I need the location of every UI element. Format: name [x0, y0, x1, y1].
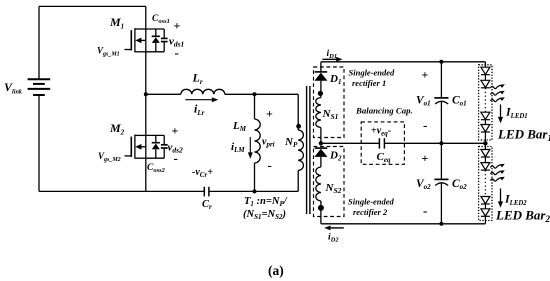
NS1 polarity dot [318, 91, 323, 96]
node LM bottom dot [253, 189, 257, 193]
wire channel2 bottom rail [321, 223, 486, 225]
node rectifier mid junction [319, 141, 323, 145]
wire LED bar2 drop [484, 143, 486, 149]
secondary winding NS2 [316, 167, 321, 224]
inductor LM [255, 94, 261, 191]
wire M2 source down [145, 158, 147, 191]
arrow ILED2 [498, 189, 503, 208]
capacitor Coss1 [161, 29, 168, 52]
svg-text:-: - [423, 203, 427, 218]
wire channel1 top rail [321, 61, 486, 63]
wire Lr to primary [225, 93, 298, 95]
M2 body arrow [135, 144, 141, 150]
svg-text:-: - [423, 118, 427, 133]
arrow iD1 [322, 57, 342, 62]
arrow iD2 [324, 226, 344, 231]
wire left rail lower [38, 95, 40, 191]
LED bar2 dotted continuation [484, 170, 486, 196]
node bar1 bottom dot [483, 141, 487, 145]
wire midpoint to Lr [146, 93, 181, 95]
battery Vlink [28, 79, 51, 95]
M2 body diode [152, 135, 160, 158]
wire bottom rail right of Cr [209, 190, 298, 192]
LED string bar2 top diodes [481, 150, 490, 171]
transistor M1 [125, 6, 146, 52]
wire mid rail left of Ceq [321, 142, 380, 144]
wire mid rail right of Ceq [384, 142, 485, 144]
svg-text:Balancing Cap.: Balancing Cap. [355, 106, 413, 116]
svg-text:Single-ended: Single-ended [349, 68, 396, 78]
svg-text:+: + [266, 107, 273, 121]
M2 snubber top wire [146, 134, 164, 136]
LED bar1 dotted continuation [484, 88, 486, 112]
M1 body diode [152, 29, 160, 52]
LED string bar2 bottom diodes [481, 197, 490, 224]
label plus vds1 minus [169, 19, 184, 61]
wire top rail [39, 5, 146, 7]
node midpoint dot [144, 92, 148, 96]
capacitor Coss2 [161, 135, 168, 158]
LED string bar1 top diodes [481, 67, 490, 88]
NS2 polarity dot [318, 205, 324, 211]
capacitor Co1 [434, 62, 448, 144]
svg-text:-: - [175, 45, 179, 60]
label plus vds2 minus [168, 124, 184, 166]
primary winding NP [298, 94, 303, 191]
secondary winding NS1 [316, 96, 321, 144]
svg-text:+: + [172, 124, 179, 138]
M1 snubber top wire [146, 28, 164, 30]
node Co1 top dot [439, 60, 443, 64]
svg-text:-: - [268, 158, 272, 173]
M1 body arrow [135, 38, 141, 44]
svg-text:Single-ended: Single-ended [348, 197, 395, 207]
node Co2 bottom dot [439, 222, 443, 226]
svg-text:(a): (a) [268, 263, 284, 278]
wire M1 source to M2 drain [145, 52, 147, 136]
M1 snubber bottom wire [146, 51, 164, 53]
capacitor Co2 [434, 143, 448, 224]
LED bar1 light arrows [490, 85, 500, 101]
LED bar2 light arrows [490, 165, 500, 181]
arrow ILED1 [498, 105, 503, 124]
svg-text:+: + [422, 151, 429, 165]
rectifier 1 dashed box [314, 67, 345, 138]
wire LED bar1 drop [484, 62, 486, 67]
LED bar2 dotted box [479, 147, 492, 221]
capacitor Cr [204, 187, 209, 197]
label plus vpri minus [262, 107, 275, 173]
balancing cap dashed box [361, 122, 404, 164]
svg-text:+veq-: +veq- [371, 126, 391, 138]
primary polarity dot [296, 124, 301, 129]
transistor M2 [125, 135, 146, 159]
svg-text:rectifier 2: rectifier 2 [353, 207, 388, 217]
diode D1 [314, 62, 327, 96]
LED string bar1 bottom diodes [481, 112, 490, 143]
diode D2 [314, 148, 327, 167]
svg-text:rectifier 1: rectifier 1 [352, 78, 386, 88]
svg-text:+: + [174, 19, 181, 33]
node mid rail Co dot [439, 141, 443, 145]
wire bottom rail left of Cr [39, 190, 204, 192]
svg-text:LED Bar2: LED Bar2 [495, 208, 550, 225]
node LM top dot [253, 92, 257, 96]
svg-text:-: - [174, 151, 178, 166]
inductor Lr [181, 89, 225, 94]
rectifier 2 dashed box [314, 147, 345, 217]
transformer core [307, 86, 310, 214]
LED bar1 dotted box [479, 65, 492, 140]
svg-text:+: + [422, 68, 429, 82]
arrow iLr [185, 97, 218, 102]
svg-text:LED Bar1: LED Bar1 [497, 127, 550, 144]
wire left rail upper [38, 6, 40, 78]
capacitor Ceq [379, 138, 384, 148]
arrow iLM [248, 137, 253, 159]
M2 snubber bottom wire [146, 157, 164, 159]
